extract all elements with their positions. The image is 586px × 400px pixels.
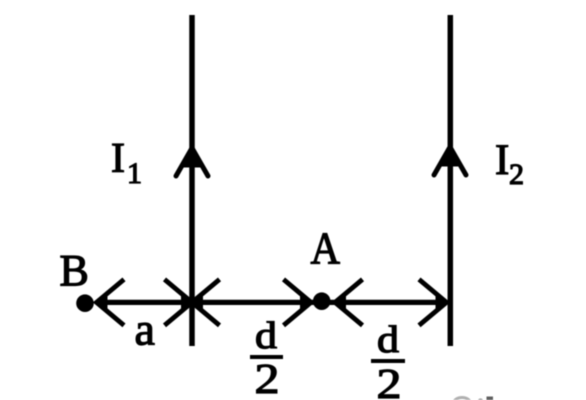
svg-text:2: 2 xyxy=(377,362,402,400)
svg-text:a: a xyxy=(135,304,155,355)
svg-text:d: d xyxy=(255,315,277,357)
svg-text:A: A xyxy=(311,223,341,274)
svg-text:I: I xyxy=(111,136,125,182)
svg-text:I: I xyxy=(495,137,509,184)
svg-text:d: d xyxy=(377,319,399,361)
svg-text:1: 1 xyxy=(127,157,142,190)
svg-text:2: 2 xyxy=(509,158,524,191)
svg-text:2: 2 xyxy=(255,357,280,400)
svg-text:B: B xyxy=(60,246,89,295)
